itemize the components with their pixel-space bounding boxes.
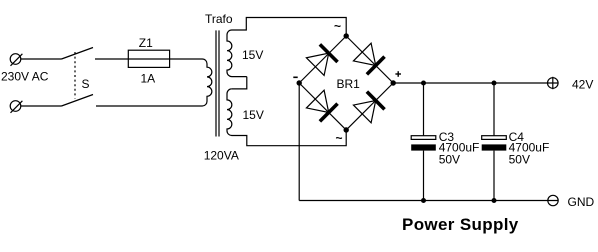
switch S pole 1 blade: [62, 48, 94, 60]
transformer T1 primary winding: [199, 59, 212, 106]
junction dot C4 top: [492, 81, 497, 86]
svg-text:15V: 15V: [243, 108, 264, 122]
svg-text:~: ~: [336, 131, 343, 145]
label + (plus): [395, 71, 401, 77]
fuse Z1 body: [128, 50, 169, 67]
svg-text:50V: 50V: [439, 152, 460, 166]
transformer T1 series link between windings: [232, 77, 247, 89]
transformer T1 core: [216, 30, 219, 136]
bridge BR1 diamond wire bottom-right: [346, 83, 393, 130]
node dot bridge top: [344, 33, 349, 38]
svg-text:120VA: 120VA: [204, 149, 239, 163]
diode D4 (bottom node to right node): [353, 92, 384, 123]
terminal 42V output: [548, 77, 559, 89]
wire bottom from switch to transformer primary: [96, 105, 199, 107]
node dot bridge left: [297, 80, 302, 85]
switch S linkage (dashed): [74, 52, 76, 99]
wire top from J1 to switch: [21, 58, 62, 60]
capacitor C3 plate top: [411, 136, 436, 140]
svg-text:S: S: [82, 77, 90, 91]
bridge BR1 diamond wire bottom-left: [299, 83, 346, 130]
svg-text:~: ~: [334, 19, 341, 33]
capacitor C4 wire bottom: [493, 151, 495, 201]
diode D3 (left node to bottom node): [306, 90, 337, 121]
junction dot C3 top: [421, 81, 426, 86]
transformer T1 secondary winding 2 and lead to bridge AC bottom: [227, 89, 346, 146]
svg-text:BR1: BR1: [337, 77, 361, 91]
svg-text:1A: 1A: [141, 72, 156, 86]
wire through fuse to transformer primary: [128, 58, 198, 60]
wire top from switch to fuse: [95, 58, 128, 60]
svg-text:Z1: Z1: [139, 36, 153, 50]
svg-text:15V: 15V: [242, 48, 263, 62]
wire minus node down to ground rail: [298, 83, 300, 201]
svg-text:Power Supply: Power Supply: [402, 215, 519, 234]
label - (minus): [293, 76, 297, 78]
terminal J2 (230V AC neutral): [10, 101, 22, 113]
capacitor C3 plate bottom (filled): [411, 144, 436, 150]
svg-text:50V: 50V: [509, 152, 530, 166]
svg-text:GND: GND: [568, 195, 595, 209]
capacitor C4 plate bottom (filled): [482, 144, 507, 150]
junction dot C3 bottom: [421, 198, 426, 203]
diode D2 (top node to right node): [353, 43, 384, 74]
switch S pole 2 blade: [62, 95, 94, 107]
svg-text:230V AC: 230V AC: [1, 70, 49, 84]
capacitor C4 wire top: [493, 83, 495, 136]
terminal GND output: [548, 195, 558, 205]
node dot bridge bottom: [344, 127, 349, 132]
svg-text:42V: 42V: [572, 78, 593, 92]
wire bottom from J2 to switch: [21, 105, 62, 107]
bridge BR1 diamond wire top-right: [346, 36, 393, 83]
ground rail wire: [299, 200, 558, 202]
svg-text:Trafo: Trafo: [205, 12, 233, 26]
capacitor C4 plate top: [482, 136, 507, 140]
junction dot C4 bottom: [492, 198, 497, 203]
diode D1 (left node to top node): [306, 44, 337, 75]
plus rail wire to 42V terminal: [393, 82, 558, 84]
capacitor C3 wire bottom: [423, 151, 425, 201]
bridge BR1 diamond wire top-left: [299, 36, 346, 83]
transformer T1 secondary winding 1 and lead to bridge AC top: [227, 18, 346, 77]
node dot bridge right: [391, 80, 396, 85]
terminal J1 (230V AC line): [10, 54, 22, 66]
capacitor C3 wire top: [423, 83, 425, 136]
